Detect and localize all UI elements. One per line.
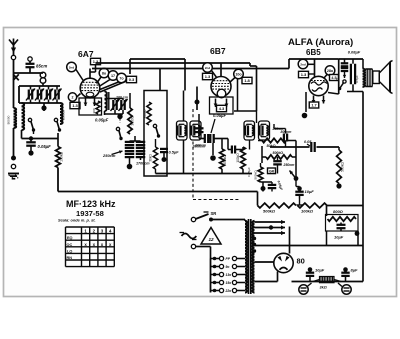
capacitor C2 0.05	[26, 142, 51, 155]
IF1 feeds	[183, 91, 185, 122]
label 6A7	[78, 49, 94, 59]
wire 6A7 grid up	[90, 65, 96, 72]
pin box 1.8 6B7	[234, 77, 257, 111]
svg-text:0.05µF: 0.05µF	[95, 118, 109, 123]
varcap CV6	[119, 99, 128, 115]
svg-text:ALFA (Aurora): ALFA (Aurora)	[288, 37, 353, 48]
capacitor C10	[341, 59, 349, 78]
svg-text:2nd: 2nd	[300, 62, 306, 66]
pin box 1.3b 6A7	[70, 102, 80, 108]
svg-text:17: 17	[111, 74, 115, 78]
IF2 label	[272, 127, 284, 131]
voltage selector	[211, 256, 246, 292]
wire r8 right	[286, 140, 296, 142]
svg-text:500kΩ: 500kΩ	[223, 155, 227, 165]
wire y262	[255, 261, 275, 263]
grid cap 6B5	[314, 59, 316, 78]
svg-text:28o: 28o	[327, 69, 334, 73]
junction det1	[210, 141, 216, 161]
wire c8 down	[271, 188, 273, 192]
antenna coil L2	[7, 108, 17, 128]
cathode arrows 6B5	[312, 96, 326, 104]
resistor R6 30000	[143, 102, 151, 125]
wire y73 antenna	[14, 72, 44, 74]
wire sw bus	[22, 130, 59, 147]
label Ta	[342, 80, 346, 84]
speaker	[373, 61, 393, 94]
svg-text:0.05: 0.05	[304, 140, 312, 144]
electrolytic C9 10uF	[295, 179, 314, 206]
label 0.05 v	[247, 167, 251, 177]
pin box 1.3 6B7	[203, 73, 213, 79]
shield box	[144, 91, 167, 177]
svg-text:6B7: 6B7	[210, 46, 226, 56]
terminal ant	[11, 164, 15, 168]
output transformer primary	[363, 69, 365, 88]
svg-text:500kΩ: 500kΩ	[254, 170, 258, 180]
wire x289 up	[289, 59, 339, 69]
IF2 feed	[250, 66, 257, 150]
socket box 6B7	[210, 97, 234, 114]
svg-text:200cm: 200cm	[194, 144, 206, 148]
circled 2nd 6B5	[298, 59, 314, 69]
svg-text:100kΩ: 100kΩ	[236, 153, 240, 163]
wire sr right	[211, 219, 245, 221]
svg-text:100kΩ: 100kΩ	[301, 209, 314, 214]
tube 6B5 envelope	[309, 76, 328, 95]
svg-text:1.3: 1.3	[205, 74, 211, 79]
variable capacitor CV2	[35, 86, 44, 103]
osc coil L4	[105, 90, 109, 115]
svg-text:0.5µF: 0.5µF	[355, 75, 359, 83]
cathode arrows 6B7	[214, 99, 229, 108]
label 800cm	[281, 130, 292, 134]
label 6B5	[306, 48, 321, 57]
wire y138.5	[199, 138, 228, 140]
cathode arrows 6A7	[84, 96, 97, 106]
wire tube bottom	[255, 272, 278, 282]
svg-text:50000: 50000	[7, 115, 11, 124]
switch S5	[338, 80, 346, 90]
switch S3	[116, 127, 122, 140]
switch S1	[28, 118, 35, 131]
circled 17.5 6A7	[99, 71, 118, 87]
box GR	[268, 168, 276, 174]
label 250cm	[102, 150, 123, 158]
IF1 label	[192, 145, 205, 149]
svg-text:0.05µF: 0.05µF	[213, 113, 227, 118]
oscillator coil L3	[22, 103, 25, 139]
svg-text:85cm: 85cm	[36, 64, 47, 69]
svg-text:Ta: Ta	[336, 78, 340, 82]
svg-text:0.05µF: 0.05µF	[38, 144, 52, 149]
label Ta2	[336, 78, 340, 82]
capacitor C8	[268, 180, 284, 192]
wire gang1 left	[18, 86, 20, 103]
wire pot	[286, 141, 296, 179]
label 1700cm	[136, 162, 150, 166]
bus y59	[130, 59, 185, 91]
bus mid verticals	[160, 63, 175, 91]
jack right	[338, 283, 351, 294]
filter choke	[313, 277, 341, 290]
IF2 capA	[245, 124, 248, 136]
svg-text:10µF: 10µF	[315, 268, 325, 273]
junction trim	[127, 157, 133, 169]
junction gang1	[41, 103, 46, 111]
gang dashed link	[120, 109, 240, 200]
IF1 can A	[177, 121, 188, 140]
junction 6B5	[302, 92, 308, 118]
svg-text:12: 12	[208, 237, 214, 242]
circled 2nd 6B7	[203, 63, 217, 78]
wire y245.5	[255, 245, 364, 247]
circled 2 6A7	[68, 93, 80, 101]
pin box 4.5 6B5	[330, 75, 339, 81]
svg-text:10o: 10o	[235, 72, 242, 76]
title ALFA (Aurora)	[288, 37, 353, 48]
wire A y147	[270, 146, 339, 148]
junction 6B7 left	[195, 87, 212, 111]
heater tap arrows	[255, 220, 286, 235]
jack left	[299, 283, 312, 294]
svg-text:OC: OC	[67, 243, 73, 247]
resistor R15 800	[326, 209, 359, 231]
tube 6B7 envelope	[211, 77, 231, 98]
variable capacitor CV3	[44, 86, 53, 103]
resistor R7 500k v	[220, 139, 227, 174]
capacitor C12 0.05	[304, 140, 315, 152]
IF2 coilA	[247, 124, 254, 136]
pin box 1.3 6A7	[91, 58, 101, 64]
svg-text:22o: 22o	[225, 289, 232, 293]
socket box 6A7	[79, 98, 102, 115]
power transformer core	[249, 219, 251, 294]
wire ac down	[196, 247, 211, 259]
label 200cm	[194, 144, 206, 148]
svg-text:8o: 8o	[102, 71, 107, 75]
trimmer T2	[136, 142, 146, 151]
wire speaker down	[362, 92, 364, 282]
caps wire box	[328, 59, 363, 94]
bus y63	[96, 63, 257, 66]
circled 2nd 6A7	[67, 62, 84, 81]
resistor R13 100k	[298, 203, 328, 213]
tap dots	[253, 237, 256, 253]
bus y173.5	[156, 169, 253, 174]
svg-text:6B5: 6B5	[306, 48, 321, 57]
IF1 capB	[191, 124, 194, 136]
svg-text:1.3: 1.3	[301, 72, 307, 77]
circled 100 6B7	[230, 69, 244, 82]
bus y191.5	[58, 191, 258, 193]
circled 280 6B5	[324, 66, 335, 78]
svg-text:3kΩ: 3kΩ	[320, 286, 327, 290]
svg-text:SR: SR	[211, 211, 217, 216]
capacitor C5 0.5	[160, 149, 179, 162]
wire r2 to bus	[57, 168, 59, 192]
svg-text:2nd: 2nd	[69, 65, 75, 69]
svg-text:100kΩ: 100kΩ	[60, 152, 64, 162]
terminal A2	[28, 57, 32, 61]
svg-text:0.5µF: 0.5µF	[169, 150, 180, 155]
svg-text:9o: 9o	[226, 265, 230, 269]
junction det2	[261, 182, 273, 192]
svg-text:4.3: 4.3	[219, 106, 225, 111]
circled 80 6A7	[97, 68, 109, 83]
tube 6A7 envelope	[80, 78, 100, 98]
pin box 4.3 6B7	[217, 105, 227, 111]
AC source	[180, 233, 197, 240]
wire osc caps top	[105, 99, 124, 115]
varcap CV5	[111, 99, 120, 115]
capacitor C15 10uF mid	[334, 223, 359, 246]
output transformer core	[365, 69, 372, 87]
antenna	[9, 39, 18, 60]
svg-text:13o: 13o	[226, 273, 232, 277]
svg-text:10µF: 10µF	[334, 235, 344, 240]
resistor R10 100k v	[236, 147, 245, 174]
svg-text:30kΩ: 30kΩ	[149, 154, 153, 162]
circled 70 6A7	[100, 73, 126, 89]
switch S2	[54, 118, 61, 131]
label 100cm	[116, 96, 128, 100]
label 80	[297, 257, 305, 266]
svg-text:15o: 15o	[226, 281, 232, 285]
resistor R1 100k	[60, 103, 66, 124]
wire left rail 800	[326, 231, 328, 246]
IF1 coilB	[193, 124, 200, 136]
IF1 can B	[190, 121, 201, 140]
wire antenna down	[13, 60, 15, 109]
switch S4	[153, 124, 160, 137]
svg-text:500kΩ: 500kΩ	[273, 151, 284, 155]
resistor R3 300	[92, 101, 100, 114]
pilot lamp triangle	[201, 228, 221, 245]
band table	[66, 227, 115, 267]
resistor R4 30k	[128, 93, 135, 134]
IF1 capA	[178, 124, 181, 136]
label 1937-58	[76, 209, 104, 218]
label 6B7	[210, 46, 226, 56]
switch SR	[191, 211, 216, 222]
svg-text:1.8: 1.8	[244, 78, 250, 83]
svg-text:0.08µF: 0.08µF	[348, 50, 361, 55]
svg-text:80: 80	[297, 257, 305, 266]
svg-text:0.05µF: 0.05µF	[247, 167, 251, 177]
svg-text:MF·123 kHz: MF·123 kHz	[66, 199, 116, 209]
wire r9 right	[292, 156, 296, 158]
junction sw	[29, 136, 33, 142]
wire x243 IF2 down	[243, 146, 247, 148]
tap ht	[255, 227, 290, 254]
pin box 1.3 6B5	[299, 71, 315, 77]
trimmer T1	[125, 142, 135, 151]
svg-text:6A7: 6A7	[78, 49, 94, 59]
tube 80	[274, 253, 293, 272]
junction ant	[11, 156, 16, 161]
IF1 down	[183, 140, 185, 174]
wire c6c right	[240, 147, 243, 150]
svg-text:8µF: 8µF	[351, 268, 359, 273]
wire chain right	[327, 206, 364, 217]
pin box 0.3 6A7	[100, 76, 137, 92]
power transformer secondary	[253, 221, 255, 292]
IF2 coilB	[261, 124, 268, 136]
resistor R12 500k	[258, 203, 297, 213]
wire l2 down	[13, 128, 15, 156]
svg-text:0.3: 0.3	[129, 77, 135, 82]
trimmer T3	[125, 154, 146, 157]
resistor R2 100k	[56, 147, 64, 168]
ground main	[8, 174, 19, 179]
svg-text:30000: 30000	[131, 116, 135, 125]
svg-text:800Ω: 800Ω	[333, 209, 344, 214]
junction osc	[117, 114, 122, 119]
svg-text:RN: RN	[67, 256, 73, 260]
IF2 can A	[244, 121, 255, 140]
svg-text:LQ: LQ	[67, 249, 72, 253]
label 0.5uF vert	[355, 75, 359, 83]
power transformer primary	[245, 220, 247, 293]
resistor R8 50k h	[258, 138, 286, 148]
svg-text:Scala: onde m. p. st.: Scala: onde m. p. st.	[58, 218, 96, 223]
label scala	[58, 218, 96, 223]
svg-text:1.3: 1.3	[72, 103, 78, 108]
wire tube right	[292, 281, 364, 283]
bus bottom gang1	[19, 102, 60, 104]
resistor R11 500k v	[254, 163, 263, 182]
svg-text:500kΩ: 500kΩ	[341, 162, 345, 172]
svg-text:1.7: 1.7	[311, 104, 316, 108]
capacitor C7 250cm	[273, 157, 294, 174]
fuse X1	[13, 74, 19, 80]
label MF 123kHz	[66, 199, 116, 209]
capacitor C6a	[195, 114, 204, 139]
IF2 capB	[260, 124, 263, 136]
label 0.05 osc	[95, 118, 109, 123]
capacitor C11	[351, 59, 355, 92]
svg-text:EQ: EQ	[67, 236, 73, 240]
electrolytic C13 10uF	[306, 267, 325, 281]
svg-text:GR: GR	[269, 169, 275, 173]
svg-text:500kΩ: 500kΩ	[263, 209, 276, 214]
grid cap 6B7	[220, 63, 222, 77]
coupling coil L1	[40, 72, 46, 86]
capacitor C12b	[274, 124, 287, 147]
svg-text:2nd: 2nd	[205, 66, 211, 70]
svg-text:10µF: 10µF	[305, 189, 315, 194]
variable capacitor CV1	[26, 86, 35, 103]
capacitor C6b series	[205, 134, 214, 143]
svg-text:7o: 7o	[119, 76, 124, 80]
variable capacitor CV4	[53, 86, 62, 103]
label 0.05 6B7	[211, 113, 227, 133]
svg-text:100000: 100000	[62, 110, 66, 121]
label 0.08 top right	[348, 50, 361, 55]
resistor R9 500k h	[262, 146, 292, 163]
resistor R14 500k v	[336, 147, 344, 189]
svg-text:2: 2	[72, 95, 74, 99]
svg-text:300: 300	[92, 108, 96, 113]
svg-text:250cm: 250cm	[283, 163, 295, 167]
bus y68.5	[92, 68, 289, 70]
IF2 can B	[259, 121, 270, 140]
bus top gang1	[19, 85, 60, 87]
svg-text:30000: 30000	[143, 109, 147, 118]
resistor R5b 30k	[149, 139, 158, 169]
AC terminal	[191, 244, 195, 248]
wire trim right	[130, 136, 141, 160]
capacitor C6c	[228, 139, 240, 154]
capacitor C1 85cm	[26, 61, 48, 73]
electrolytic C14 8uF	[341, 267, 358, 281]
potentiometer wiper	[290, 171, 299, 181]
IF1 coilA	[179, 124, 186, 136]
wire chain drop	[257, 192, 259, 206]
grid cap 6A7	[89, 69, 91, 79]
wire x231 down	[228, 114, 231, 139]
pin box 1.7 6B5	[309, 102, 319, 108]
